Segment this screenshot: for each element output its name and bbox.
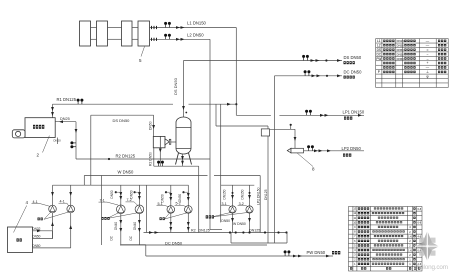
wire: DS branch vertical	[90, 115, 92, 185]
valve pair LP1	[306, 112, 308, 115]
svg-text:DN40: DN40	[133, 222, 137, 230]
svg-text:=: =	[427, 48, 429, 52]
pump 3-1	[229, 206, 236, 213]
group3 name	[206, 215, 214, 218]
wire: L2 bottom turn	[210, 229, 222, 231]
valve pair eductor drain	[158, 163, 160, 166]
arrow DC	[312, 74, 316, 77]
wire: branch drop from R1	[215, 104, 217, 126]
svg-text:DC: DC	[376, 52, 381, 56]
wire: pump3-1 out	[232, 213, 234, 233]
svg-text:6-8: 6-8	[417, 208, 421, 211]
leader item 2	[43, 136, 50, 153]
wire: pump7-2 out	[138, 214, 140, 245]
wire: to ejector	[270, 128, 295, 130]
wire: wrap box right of group3	[286, 233, 288, 244]
arrow LP2	[314, 149, 318, 152]
legend table	[376, 39, 449, 88]
svg-text:zhulong.com: zhulong.com	[414, 264, 448, 271]
svg-text:DN32: DN32	[32, 227, 40, 231]
wire: DS branch top	[91, 114, 154, 116]
wire: R2 discharge header	[144, 232, 288, 234]
wire: pump5-1 out	[170, 213, 172, 232]
svg-text:1-6: 1-6	[408, 248, 412, 252]
svg-text:L1 DN150: L1 DN150	[187, 21, 207, 26]
svg-text:DN150: DN150	[241, 189, 245, 199]
pump group 5	[170, 185, 172, 206]
flow arrow L2	[176, 38, 180, 41]
wire: W pipe right	[214, 175, 260, 177]
wire: eductor drain	[159, 148, 161, 166]
wire: pump5-2 out	[187, 213, 189, 232]
leader item 8	[297, 153, 313, 167]
svg-text:R2 DN125: R2 DN125	[116, 153, 136, 158]
dest text DC	[344, 76, 355, 79]
wire: tank line DN50a	[33, 238, 53, 240]
wire: group3 frame top	[221, 184, 255, 186]
bold name box2	[33, 125, 44, 129]
arrow PW end	[326, 255, 330, 258]
tank name	[17, 238, 22, 241]
BOM table	[349, 207, 423, 272]
svg-text:L1: L1	[377, 39, 381, 43]
svg-text:DN50: DN50	[397, 57, 405, 61]
arrow LP1	[320, 114, 324, 117]
wire: eductor feed	[153, 115, 155, 136]
valve pair LP2	[308, 148, 310, 151]
wire: branch run	[216, 125, 268, 127]
dot left of 7-2 drop	[134, 191, 136, 193]
wire: L2 pipe	[150, 38, 211, 40]
svg-text:DC: DC	[110, 235, 114, 240]
box2 bracket	[12, 130, 25, 138]
svg-text:R2: R2	[191, 229, 196, 233]
svg-text:L2: L2	[377, 44, 381, 48]
svg-text:PW DN50: PW DN50	[307, 250, 326, 255]
arrow into vessel	[182, 106, 185, 110]
wire: tank line DN50b	[33, 247, 71, 249]
wire: DN25 stub	[55, 121, 76, 123]
wire: suction header	[53, 184, 189, 186]
stub for dot	[290, 126, 292, 130]
wire: LP1 right	[279, 114, 364, 116]
svg-text:DN125: DN125	[249, 229, 260, 233]
vessel legs	[176, 153, 179, 165]
svg-text:DN150: DN150	[223, 189, 227, 199]
wire: R1 pipe (left of DS riser gap)	[53, 103, 174, 105]
wire: R1 into box2	[52, 104, 54, 118]
flow arrow L1	[176, 26, 180, 29]
svg-text:P: P	[378, 70, 380, 74]
pump 5-2	[185, 206, 193, 214]
svg-text:7-1: 7-1	[100, 198, 105, 202]
svg-text:DN50: DN50	[178, 194, 182, 202]
dot on ejector branch	[290, 124, 292, 126]
wire: PW line	[146, 255, 333, 257]
wire: DN25 drop	[75, 122, 77, 159]
wire: L1 pipe	[150, 27, 237, 29]
svg-text:DN50: DN50	[397, 44, 405, 48]
svg-text:DS DN50: DS DN50	[113, 118, 131, 123]
pump 7-2	[135, 205, 144, 214]
wire: LP2 riser	[259, 176, 261, 233]
wire: connect	[52, 231, 54, 239]
svg-text:DN25: DN25	[60, 117, 70, 121]
ejector item 8	[287, 148, 291, 153]
dot left of 5-1 drop	[165, 191, 167, 193]
pump 4-1b	[67, 205, 75, 213]
leader tank	[14, 206, 27, 233]
wire: L1 drop	[235, 28, 237, 116]
svg-text:DN50: DN50	[32, 235, 40, 239]
svg-text:DN50: DN50	[110, 190, 114, 198]
svg-text:DN40: DN40	[114, 222, 118, 230]
wire: pump4-2 out	[70, 213, 72, 248]
wire: eductor drain line	[154, 165, 199, 167]
valve pair on L1	[165, 25, 167, 28]
dest text LP1	[344, 117, 352, 120]
DN20 stub	[57, 138, 59, 145]
svg-text:R1 DN125: R1 DN125	[57, 97, 77, 102]
wire: DN125 vertical	[267, 136, 269, 243]
wire: pump3-2 out	[249, 213, 251, 233]
wire: ejector inlet	[294, 129, 296, 148]
svg-text:3-1: 3-1	[222, 202, 227, 206]
svg-text:DN125: DN125	[199, 229, 210, 233]
wire: R2 pipe	[76, 158, 210, 160]
wire: R1 pipe (right of gap)	[189, 103, 237, 105]
svg-text:DN20: DN20	[54, 139, 62, 143]
wire: train connecting pipes	[91, 27, 97, 29]
svg-text:3-2: 3-2	[239, 202, 244, 206]
valve pair DC	[304, 73, 306, 76]
eductor body	[153, 136, 165, 147]
wire: group7 discharge header	[121, 244, 146, 246]
svg-text:4-1: 4-1	[33, 200, 38, 204]
wire: DC drop	[274, 76, 276, 243]
svg-text:→: →	[426, 57, 429, 61]
svg-text:DN50: DN50	[129, 190, 133, 198]
wire: pump7-1 out	[120, 214, 122, 245]
pump 3-2	[246, 206, 253, 213]
wire: drop to R2 header	[198, 166, 200, 232]
svg-text:W DN50: W DN50	[118, 169, 134, 174]
svg-text:L2 DN50: L2 DN50	[187, 32, 204, 37]
wire: tank line DN32	[33, 230, 53, 232]
wire: LP1 left	[236, 114, 271, 116]
svg-text:DN50: DN50	[149, 121, 153, 130]
dot left of 5-2 drop	[182, 191, 184, 193]
flange ticks L1/L2	[151, 26, 153, 29]
svg-text:DN50: DN50	[221, 219, 230, 223]
valve pair DN25 drop	[73, 142, 76, 144]
wire: LP2 pipe	[304, 150, 365, 152]
valve pair R1	[77, 101, 79, 104]
water tank item 4	[8, 227, 33, 253]
svg-text:DN50: DN50	[397, 53, 405, 57]
leader item 5	[141, 47, 145, 57]
dest text LP2	[343, 154, 351, 157]
junction L1-R1	[235, 103, 237, 105]
wire: eductor left drop	[153, 148, 155, 166]
wire: eductor-vessel stub	[171, 141, 176, 143]
group7 name	[101, 217, 109, 220]
svg-text:LP1 DN150: LP1 DN150	[343, 110, 365, 115]
heat exchanger train item 5	[80, 21, 91, 46]
svg-text:DS DN50: DS DN50	[344, 55, 362, 60]
svg-text:W DN50: W DN50	[233, 222, 246, 226]
dest text DS	[344, 61, 355, 64]
svg-text:LP2 DN50: LP2 DN50	[342, 146, 362, 151]
wire: DC header	[275, 75, 343, 77]
group4 name	[38, 218, 43, 221]
wire: step down to PW	[145, 245, 147, 256]
wire: W pipe left	[84, 175, 207, 177]
svg-text:R2 DN50: R2 DN50	[149, 152, 153, 166]
valve pair PW	[284, 253, 286, 256]
svg-text:DN125: DN125	[264, 189, 268, 200]
svg-text:DS: DS	[377, 48, 381, 52]
svg-text:DC DN50: DC DN50	[165, 240, 183, 245]
pump 5-1	[167, 206, 175, 214]
pump 4-1	[49, 205, 57, 213]
svg-text:DN50: DN50	[161, 194, 165, 202]
arrow R1 end	[227, 103, 231, 106]
svg-text:DN50: DN50	[397, 48, 405, 52]
wire: vessel inlet drop	[183, 61, 185, 118]
svg-text:DC: DC	[129, 235, 133, 240]
dot left of 7-1 drop	[115, 191, 117, 193]
svg-text:+: +	[427, 61, 429, 65]
arrow DS	[311, 59, 315, 62]
wire: W left drop	[83, 176, 85, 186]
valve pair on L2	[165, 36, 167, 39]
svg-text:⊥: ⊥	[426, 70, 429, 74]
pump group 7	[120, 185, 122, 205]
pump 7-1	[117, 205, 126, 214]
pump group 4	[52, 185, 54, 205]
vessel flash tank	[176, 117, 191, 154]
svg-text:~: ~	[427, 52, 429, 56]
wire: group3 left feed vertical	[220, 104, 222, 222]
wire: mid vertical	[146, 185, 148, 232]
wire: pump4-1 out	[52, 213, 54, 239]
wire: vertical x101.6	[101, 176, 103, 246]
vessel drain	[182, 154, 184, 166]
svg-text:1-6: 1-6	[408, 234, 412, 238]
equipment box item 2	[25, 118, 55, 138]
wire: DC collect line	[120, 244, 267, 246]
wire: L2 drop	[209, 39, 211, 229]
watermark logo	[415, 230, 440, 262]
valve pair DS	[303, 58, 305, 61]
dest text PW	[332, 251, 340, 254]
svg-text:DC DN50: DC DN50	[344, 69, 363, 74]
svg-text:PW: PW	[376, 57, 381, 61]
group5 name	[160, 217, 165, 220]
junction R2	[108, 158, 110, 160]
small box on branch	[261, 129, 269, 136]
svg-text:DN50: DN50	[32, 244, 40, 248]
svg-text:4-1: 4-1	[60, 199, 65, 203]
wire: DS header	[184, 60, 343, 62]
svg-text:LP2 DN150: LP2 DN150	[256, 187, 260, 205]
svg-text:DS DN50: DS DN50	[173, 77, 178, 95]
svg-text:6-8: 6-8	[417, 222, 421, 225]
